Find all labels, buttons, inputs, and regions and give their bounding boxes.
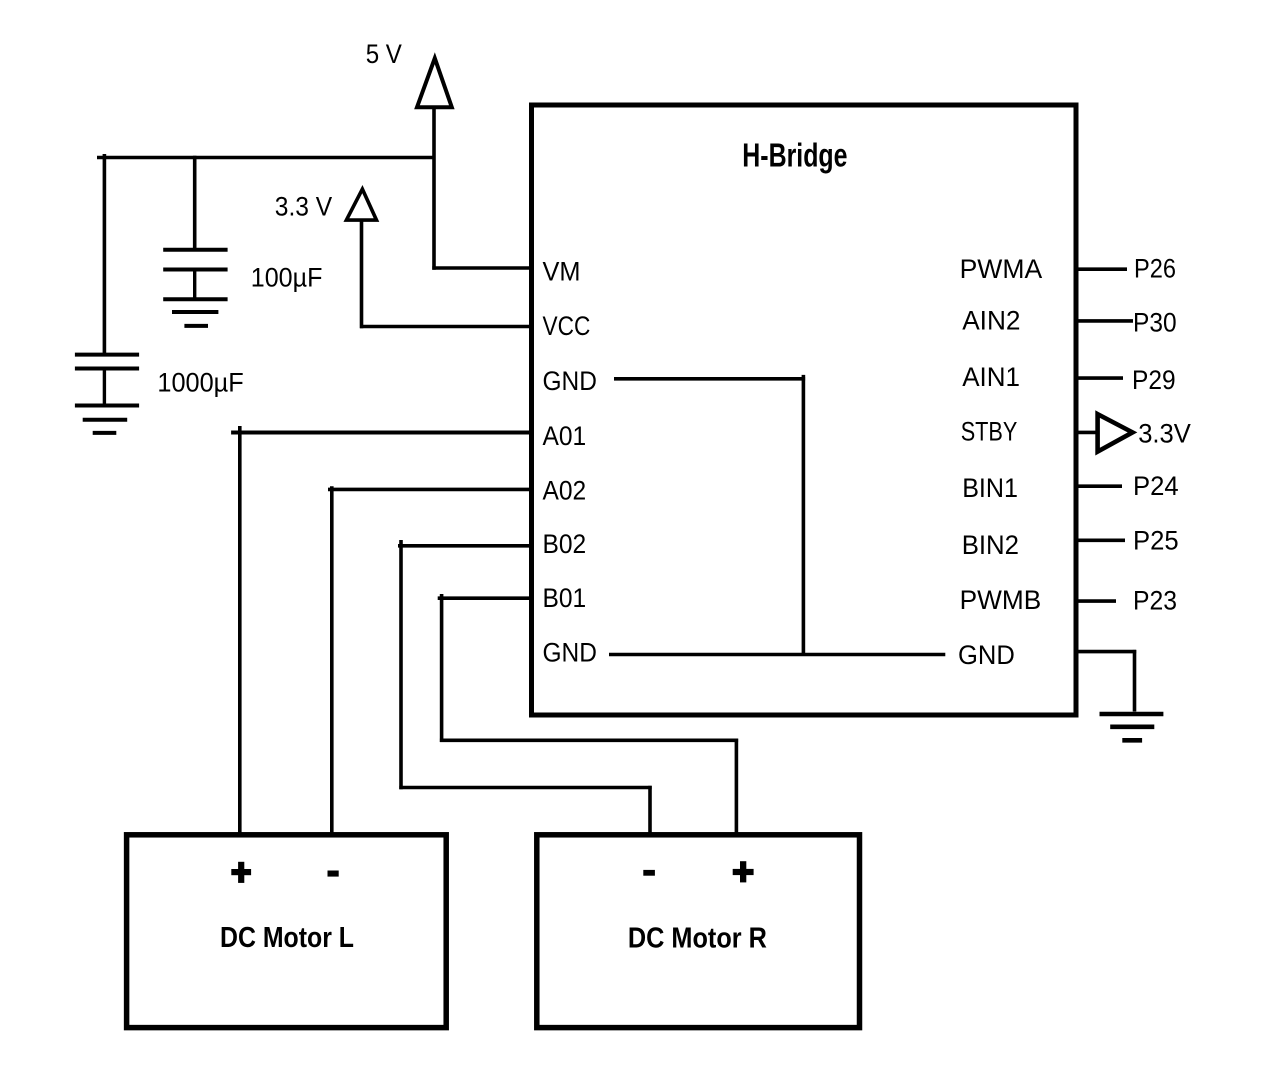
motor M1 DC Motor L box [127, 835, 447, 1028]
svg-text:3.3 V: 3.3 V [275, 191, 332, 221]
svg-text:GND: GND [543, 638, 597, 668]
wire PWMB stub P23 [1076, 599, 1116, 603]
capacitor C2 100µF plates [163, 248, 227, 252]
svg-text:STBY: STBY [961, 417, 1018, 447]
wire 5V rail top [97, 156, 434, 160]
svg-text:VM: VM [543, 257, 581, 287]
wire 5V arrow shaft to VM [432, 105, 436, 270]
svg-text:DC Motor L: DC Motor L [220, 922, 354, 954]
wire B01 vertical [440, 594, 444, 742]
svg-text:GND: GND [958, 640, 1015, 670]
svg-text:P25: P25 [1133, 526, 1179, 556]
svg-text:B02: B02 [543, 529, 587, 559]
op-amp U1 H-Bridge box [532, 105, 1077, 715]
wire VM pin [432, 266, 531, 270]
svg-text:AIN2: AIN2 [962, 306, 1020, 336]
power symbol 3.3V arrow [346, 189, 376, 220]
wire AIN2 stub P30 [1076, 319, 1133, 323]
wire B02 lower horizontal [399, 786, 651, 790]
wire A02 horizontal [328, 488, 531, 492]
motor L minus terminal [328, 871, 339, 877]
wire capacitor C1 lead [103, 154, 107, 355]
motor L plus terminal [231, 862, 251, 883]
svg-text:P24: P24 [1133, 471, 1179, 501]
wire GND right vertical [1133, 650, 1137, 712]
svg-text:P30: P30 [1133, 307, 1177, 337]
ground below C2 [163, 297, 227, 301]
svg-text:VCC: VCC [543, 311, 591, 341]
power symbol 5V arrow [417, 58, 452, 107]
wire B02 drop to motor R - [648, 786, 652, 834]
wire PWMA stub P26 [1076, 267, 1127, 271]
svg-text:B01: B01 [543, 583, 587, 613]
svg-text:DC Motor R: DC Motor R [628, 923, 767, 955]
svg-text:PWMA: PWMA [960, 254, 1043, 284]
svg-text:A02: A02 [543, 476, 587, 506]
svg-text:PWMB: PWMB [960, 585, 1042, 615]
wire A01 horizontal [231, 431, 531, 435]
svg-text:5 V: 5 V [366, 39, 402, 69]
wire 3.3V arrow shaft [360, 218, 364, 328]
svg-text:GND: GND [543, 366, 597, 396]
svg-text:A01: A01 [543, 421, 587, 451]
wire capacitor C2 lead [193, 156, 197, 250]
svg-text:P26: P26 [1134, 254, 1176, 284]
ground below C1 [75, 404, 139, 408]
motor R minus terminal [643, 870, 655, 876]
svg-text:H-Bridge: H-Bridge [742, 138, 847, 175]
wire B02 horizontal [398, 544, 531, 548]
wire A01 vertical to motor L + [238, 426, 242, 834]
svg-text:P23: P23 [1133, 586, 1177, 616]
svg-text:1000µF: 1000µF [157, 368, 243, 398]
wire GND vertical link [802, 375, 806, 655]
capacitor C1 1000µF plates [75, 353, 139, 357]
svg-text:100µF: 100µF [251, 262, 323, 292]
wire AIN1 stub P29 [1076, 376, 1123, 380]
wire B01 lower horizontal [440, 738, 738, 742]
svg-text:P29: P29 [1132, 365, 1176, 395]
wire VCC pin [360, 325, 531, 329]
wire B02 vertical [399, 540, 403, 789]
svg-text:BIN1: BIN1 [962, 473, 1018, 503]
svg-text:3.3V: 3.3V [1138, 418, 1191, 448]
wire A02 vertical to motor L - [330, 486, 334, 834]
wire GND pin top horizontal [614, 377, 805, 381]
wire STBY stub [1076, 431, 1098, 435]
svg-text:AIN1: AIN1 [962, 362, 1020, 392]
svg-text:BIN2: BIN2 [962, 530, 1019, 560]
wire BIN1 stub P24 [1076, 484, 1122, 488]
wire B01 horizontal [438, 596, 531, 600]
ground right of GND pin [1100, 714, 1164, 740]
motor R plus terminal [733, 861, 754, 882]
wire GND right horizontal [1076, 650, 1136, 654]
motor M2 DC Motor R box [537, 835, 860, 1028]
power symbol STBY 3.3V arrow [1098, 414, 1133, 452]
wire BIN2 stub P25 [1076, 538, 1125, 542]
wire GND pin bottom horizontal [609, 653, 945, 657]
wire B01 drop to motor R + [735, 739, 739, 834]
